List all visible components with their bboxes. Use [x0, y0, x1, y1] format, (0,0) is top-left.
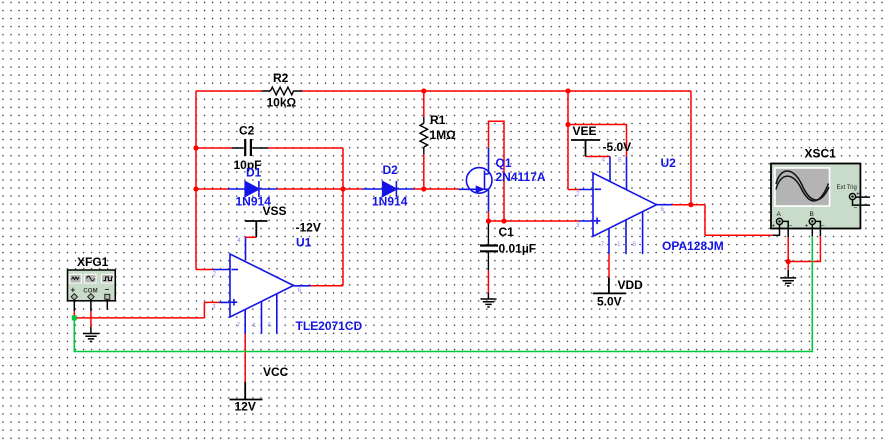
svg-text:D2: D2 — [383, 163, 399, 177]
wire C1 node to U2 +in — [489, 220, 580, 222]
svg-text:OPA128JM: OPA128JM — [662, 239, 724, 253]
wire scope A- to ground — [787, 237, 789, 270]
XSC1 terminals A B ExtTrig — [776, 218, 782, 224]
svg-text:0.01µF: 0.01µF — [499, 242, 537, 256]
transistor Q1 2N4117A (JFET as diode) — [458, 148, 492, 212]
svg-text:TLE2071CD: TLE2071CD — [296, 319, 363, 333]
svg-text:3: 3 — [212, 304, 216, 311]
wire C1 to ground segment — [487, 270, 489, 292]
svg-text:R2: R2 — [273, 71, 289, 85]
svg-text:−: − — [105, 285, 110, 294]
ground (below C1) — [481, 293, 497, 307]
svg-text:Ext Trig: Ext Trig — [837, 185, 857, 191]
wire R1 column x=424 — [423, 91, 425, 189]
wire U2 -in vertical x=568 — [568, 91, 579, 190]
power VDD bar (5.0V) — [593, 277, 626, 293]
svg-text:7: 7 — [601, 241, 605, 248]
wire mid vertical x=343 (U1 out to C2/D rows) — [342, 148, 344, 286]
wire U1 pin7 to VCC — [244, 334, 246, 382]
svg-text:+: + — [772, 223, 776, 230]
capacitor C2 — [232, 139, 268, 156]
svg-text:6: 6 — [661, 206, 665, 213]
svg-text:4: 4 — [237, 237, 241, 244]
wire VSS stem to U1 pin4 — [246, 236, 257, 238]
wire Q1 source to C1 node — [488, 212, 490, 221]
svg-text:+: + — [805, 223, 809, 230]
svg-text:4: 4 — [602, 157, 606, 164]
op-amp U1 TLE2071CD — [213, 237, 311, 333]
svg-text:5: 5 — [268, 322, 272, 329]
svg-text:5: 5 — [633, 241, 637, 248]
wire scope B- to A- junction — [788, 236, 820, 261]
scope trace sine waves — [776, 171, 829, 200]
wire -in node to pin8 — [568, 125, 627, 157]
svg-text:1MΩ: 1MΩ — [430, 128, 457, 142]
svg-text:VEE: VEE — [573, 124, 597, 138]
wire U2 output / to scope A — [672, 91, 773, 235]
svg-text:D1: D1 — [246, 166, 262, 180]
wire XFG COM to ground — [90, 311, 92, 327]
svg-text:U2: U2 — [661, 156, 677, 170]
wire top feedback bus y=91 — [196, 90, 691, 92]
wire left feedback vertical x=196 — [195, 91, 197, 270]
wire VEE stem to pin4 — [586, 156, 611, 158]
diode D1 1N914 — [228, 181, 277, 197]
ground (below scope A-) — [780, 270, 796, 286]
svg-text:1N914: 1N914 — [372, 195, 408, 209]
svg-text:2: 2 — [213, 271, 217, 278]
svg-text:10kΩ: 10kΩ — [267, 96, 297, 110]
ground (below XFG1 COM) — [83, 327, 99, 342]
wire C2 row — [196, 147, 343, 149]
XFG1 function generator box — [68, 270, 116, 311]
svg-text:7: 7 — [237, 322, 241, 329]
svg-text:−: − — [789, 223, 793, 230]
svg-text:−: − — [854, 205, 858, 212]
svg-text:VDD: VDD — [618, 278, 644, 292]
wire U1 -in — [196, 269, 213, 271]
svg-text:A: A — [777, 211, 782, 218]
scope leads — [773, 225, 780, 236]
XFG1 terminals — [71, 294, 77, 300]
resistor R1 — [420, 117, 428, 154]
svg-text:2N4117A: 2N4117A — [496, 170, 546, 184]
svg-text:COM: COM — [83, 288, 97, 295]
svg-text:VCC: VCC — [263, 365, 289, 379]
wire green from XFG+ to scope B+ — [74, 236, 812, 351]
svg-text:3: 3 — [576, 222, 580, 229]
svg-text:−: − — [821, 223, 825, 230]
svg-text:1: 1 — [253, 322, 257, 329]
svg-text:-12V: -12V — [296, 221, 321, 235]
node junction dots (red) — [193, 88, 790, 264]
power VEE bar (-5.0V) — [571, 140, 600, 157]
wire U1 output — [311, 285, 344, 287]
diode D2 1N914 — [362, 181, 414, 197]
svg-text:8: 8 — [618, 157, 622, 164]
power VCC bar (12V) — [230, 382, 263, 400]
capacitor C1 — [480, 222, 498, 270]
svg-text:12V: 12V — [235, 400, 256, 414]
svg-text:+: + — [71, 286, 76, 295]
svg-text:VSS: VSS — [263, 204, 287, 218]
svg-text:Q1: Q1 — [496, 156, 512, 170]
svg-text:-5.0V: -5.0V — [603, 140, 632, 154]
wire diode row y=189 — [196, 188, 458, 190]
svg-text:5.0V: 5.0V — [597, 295, 622, 309]
node green dot at XFG+ — [72, 315, 77, 320]
svg-text:+: + — [856, 191, 860, 198]
svg-text:B: B — [810, 211, 814, 218]
svg-text:XFG1: XFG1 — [77, 255, 109, 269]
wire U1 +in from XFG — [74, 302, 219, 318]
power VSS bar (-12V) — [245, 221, 268, 237]
svg-text:U1: U1 — [296, 236, 312, 250]
svg-text:XSC1: XSC1 — [805, 147, 837, 161]
svg-text:1: 1 — [617, 241, 621, 248]
svg-text:6: 6 — [298, 287, 302, 294]
wire Q1 drain-source hook — [489, 121, 505, 221]
svg-text:R1: R1 — [430, 113, 446, 127]
svg-text:C2: C2 — [239, 124, 255, 138]
svg-text:C1: C1 — [499, 225, 515, 239]
XSC1 oscilloscope box — [771, 164, 870, 238]
ext trig stubs — [853, 197, 871, 205]
op-amp U2 OPA128JM — [579, 157, 672, 255]
resistor R2 — [262, 87, 302, 95]
wire U2 pin7 to VDD — [608, 254, 610, 277]
svg-text:2: 2 — [576, 191, 580, 198]
